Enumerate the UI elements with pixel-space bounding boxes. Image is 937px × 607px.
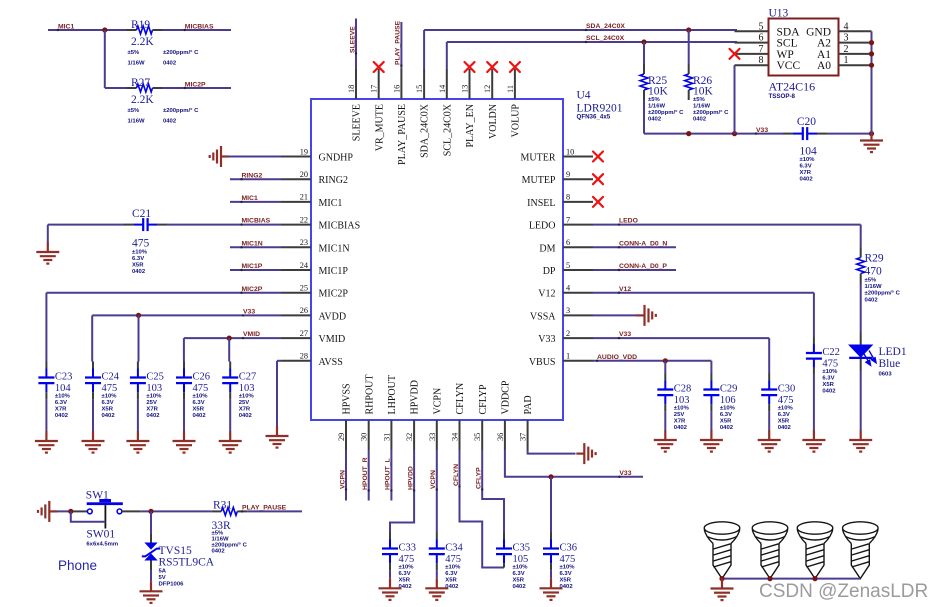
svg-text:±200ppm/° C: ±200ppm/° C — [163, 108, 199, 114]
svg-text:SDA_24C0X: SDA_24C0X — [420, 103, 431, 158]
wire net SDA_24C0X horizontal — [424, 29, 737, 31]
svg-text:C33: C33 — [399, 543, 417, 554]
svg-text:28: 28 — [300, 352, 308, 361]
svg-text:MIC1: MIC1 — [242, 195, 258, 202]
svg-text:27: 27 — [300, 329, 308, 338]
U4 pin 19 GNDHP stub — [281, 156, 311, 158]
no-connect X pin 11 — [510, 62, 520, 72]
wire C25 lead — [137, 399, 139, 431]
svg-text:RS5TL9CA: RS5TL9CA — [159, 556, 215, 568]
wire MIC2P down to C23 — [45, 293, 47, 362]
svg-text:R29: R29 — [865, 253, 884, 265]
svg-text:6: 6 — [566, 238, 570, 247]
node V33 label on rail — [755, 132, 757, 134]
svg-text:PLAY_PAUSE: PLAY_PAUSE — [397, 104, 408, 165]
capacitor C20 — [784, 133, 794, 135]
wire screw ground bus — [722, 578, 860, 580]
svg-text:6.3V: 6.3V — [55, 400, 67, 406]
no-connect X at U13 pin 7 WP — [730, 49, 740, 59]
wire net SCL_24C0X horizontal — [447, 41, 737, 43]
svg-text:A2: A2 — [817, 38, 831, 50]
svg-text:X7R: X7R — [800, 170, 812, 176]
wire net PLAY_PAUSE at pin 16 — [400, 22, 402, 69]
svg-text:X5R: X5R — [445, 578, 457, 584]
U13 pin 7 WP stub — [735, 53, 769, 55]
wire C36 to ground — [550, 570, 552, 578]
svg-text:PAD: PAD — [523, 395, 534, 414]
svg-text:X5R: X5R — [560, 578, 572, 584]
svg-text:8: 8 — [759, 55, 764, 66]
svg-text:GNDHP: GNDHP — [319, 153, 354, 164]
svg-text:R19: R19 — [131, 19, 150, 31]
svg-text:±10%: ±10% — [102, 394, 118, 400]
svg-text:HPVDD: HPVDD — [410, 380, 421, 414]
svg-text:CFLYN: CFLYN — [455, 383, 466, 415]
svg-text:VCPN: VCPN — [430, 470, 437, 489]
svg-text:HPOUT_R: HPOUT_R — [362, 457, 369, 490]
svg-text:C21: C21 — [132, 208, 151, 220]
wire net VCPN at pin 33 to C34 — [436, 450, 438, 533]
LED LED1 Blue — [860, 333, 862, 346]
svg-text:1/16W: 1/16W — [128, 118, 145, 124]
resistor R27 — [127, 87, 137, 89]
wire net LEDO — [593, 224, 861, 226]
U4 pin 3 VSSA stub — [563, 314, 593, 316]
wire AUDIO_VDD down to C28 — [664, 361, 666, 374]
ground below C29 — [700, 430, 723, 452]
junction R26 on V33 rail — [686, 131, 691, 136]
svg-text:VR_MUTE: VR_MUTE — [374, 104, 385, 151]
svg-text:AUDIO_VDD: AUDIO_VDD — [597, 354, 637, 361]
junction at TVS15 — [148, 509, 153, 514]
svg-text:U4: U4 — [577, 90, 591, 102]
svg-text:Blue: Blue — [879, 358, 901, 370]
svg-text:V33: V33 — [756, 127, 768, 134]
U4 pin 36 VDDCP stub — [504, 420, 506, 450]
svg-text:17: 17 — [370, 85, 379, 93]
svg-text:C30: C30 — [778, 384, 796, 395]
svg-text:8: 8 — [566, 193, 570, 202]
svg-text:±10%: ±10% — [146, 394, 162, 400]
screw MH2 — [752, 522, 788, 579]
IC U13 AT24C16 body — [769, 19, 839, 76]
U4 pin 32 HPVDD stub — [413, 420, 415, 450]
svg-text:C25: C25 — [146, 372, 164, 383]
junction V33 to C25 — [136, 313, 141, 318]
svg-text:MIC1: MIC1 — [319, 198, 343, 209]
resistor R29 470 — [860, 248, 862, 258]
wire AVSS down to ground — [277, 360, 281, 362]
svg-text:A0: A0 — [817, 60, 831, 72]
capacitor C25 — [137, 362, 139, 369]
wire SW1 to R31 — [140, 510, 211, 512]
svg-text:AT24C16: AT24C16 — [769, 80, 816, 94]
junction U13 pin 2 — [869, 51, 874, 56]
U4 pin 5 DP stub — [563, 269, 593, 271]
U4 pin 10 MUTER stub — [563, 156, 593, 158]
ground right of C20 — [860, 131, 883, 153]
wire net HPOUT_R at pin 30 — [368, 450, 370, 501]
svg-text:X5R: X5R — [513, 578, 525, 584]
svg-text:7: 7 — [759, 44, 764, 55]
wire VCC riser to U13 pin 8 — [734, 65, 736, 133]
svg-text:±5%: ±5% — [693, 97, 706, 103]
svg-text:LEDO: LEDO — [529, 221, 556, 232]
svg-text:0402: 0402 — [648, 116, 662, 122]
svg-text:C35: C35 — [513, 543, 531, 554]
U4 pin 34 CFLYN stub — [459, 420, 461, 450]
svg-text:VCPN: VCPN — [339, 470, 346, 489]
svg-text:6.3V: 6.3V — [445, 571, 457, 577]
wire net VMID row at pin 27 — [184, 337, 281, 339]
U4 pin 7 LEDO stub — [563, 224, 593, 226]
wire net MIC1 horizontal — [48, 29, 127, 31]
svg-text:SDA: SDA — [777, 26, 801, 38]
svg-text:0402: 0402 — [212, 549, 226, 555]
wire net AUDIO_VDD at pin 1 VBUS — [593, 360, 711, 362]
svg-text:C20: C20 — [797, 116, 816, 128]
svg-text:475: 475 — [822, 359, 838, 370]
wire R26 top — [688, 30, 690, 64]
U4 pin 1 VBUS stub — [563, 360, 593, 362]
wire LED1 to ground — [860, 371, 862, 430]
svg-text:X5R: X5R — [822, 382, 834, 388]
wire VMID down to C27 — [228, 338, 230, 361]
svg-text:7: 7 — [566, 215, 570, 224]
svg-text:V33: V33 — [619, 331, 631, 338]
svg-text:SW1: SW1 — [86, 489, 109, 501]
U4 pin 17 VR_MUTE stub — [378, 69, 380, 99]
svg-text:10K: 10K — [648, 86, 669, 98]
U4 pin 2 V33 stub — [563, 337, 593, 339]
U13 pin 3 A2 stub — [839, 42, 872, 44]
svg-text:20: 20 — [300, 170, 308, 179]
svg-text:34: 34 — [451, 432, 460, 441]
resistor R19 — [127, 29, 137, 31]
U4 pin 33 VCPN stub — [436, 420, 438, 450]
svg-text:C28: C28 — [674, 384, 692, 395]
resistor R26 10K — [688, 64, 690, 74]
svg-text:±10%: ±10% — [55, 394, 71, 400]
capacitor C35 — [503, 533, 505, 540]
svg-text:2.2K: 2.2K — [131, 94, 154, 106]
wire VMID down to C26 — [183, 338, 185, 361]
wire net V12 at pin 4 — [593, 292, 814, 294]
U4 pin 26 AVDD stub — [281, 314, 311, 316]
svg-text:C29: C29 — [720, 384, 738, 395]
ground below C30 — [758, 430, 781, 452]
capacitor C26 — [183, 362, 185, 369]
svg-text:VSSA: VSSA — [530, 311, 556, 322]
svg-text:X7R: X7R — [239, 407, 251, 413]
svg-text:TSSOP-8: TSSOP-8 — [769, 93, 796, 100]
svg-text:MICBIAS: MICBIAS — [242, 218, 271, 225]
svg-text:X5R: X5R — [720, 419, 732, 425]
svg-text:VBUS: VBUS — [529, 357, 556, 368]
svg-text:10: 10 — [566, 147, 574, 156]
svg-text:C26: C26 — [193, 372, 211, 383]
wire net V33 rail top-right — [644, 133, 784, 135]
svg-text:1/16W: 1/16W — [212, 536, 229, 542]
wire C22 to ground — [813, 375, 815, 430]
svg-text:0402: 0402 — [146, 413, 160, 419]
wire VSSA at pin 3 — [593, 314, 637, 316]
U4 pin 27 VMID stub — [281, 337, 311, 339]
svg-text:5V: 5V — [159, 575, 166, 581]
ground below C23 — [35, 431, 58, 453]
svg-text:C23: C23 — [55, 372, 73, 383]
ground below C34 — [425, 578, 448, 600]
svg-text:±200ppm/° C: ±200ppm/° C — [163, 50, 199, 56]
svg-text:QFN36_4x5: QFN36_4x5 — [577, 114, 611, 121]
wire C34 to ground — [436, 570, 438, 578]
svg-text:3: 3 — [566, 306, 570, 315]
svg-text:CFLYP: CFLYP — [476, 467, 483, 489]
wire R31 to PLAY_PAUSE — [247, 510, 302, 512]
wire net VCPN at pin 29 — [345, 450, 347, 501]
svg-text:V33: V33 — [538, 334, 555, 345]
svg-text:±10%: ±10% — [720, 406, 736, 412]
svg-text:VMID: VMID — [319, 334, 346, 345]
svg-text:0402: 0402 — [720, 425, 734, 431]
svg-text:4: 4 — [844, 21, 849, 32]
svg-text:29: 29 — [337, 433, 346, 441]
svg-text:HPVSS: HPVSS — [342, 383, 353, 414]
svg-text:CFLYP: CFLYP — [478, 384, 489, 415]
node MIC2P label — [184, 87, 186, 89]
svg-text:RING2: RING2 — [242, 172, 263, 179]
svg-text:RING2: RING2 — [319, 175, 348, 186]
svg-text:3: 3 — [844, 33, 849, 44]
U4 pin 31 LHPOUT stub — [390, 420, 392, 450]
svg-text:37: 37 — [519, 433, 528, 441]
no-connect X pin 10 MUTER — [593, 152, 603, 162]
no-connect X pin 9 MUTEP — [593, 174, 603, 184]
U13 pin 4 GND stub — [839, 30, 872, 32]
svg-text:6.3V: 6.3V — [102, 400, 114, 406]
wire net MICBIAS row — [48, 224, 125, 226]
svg-text:X5R: X5R — [102, 407, 114, 413]
ground left of SW1 — [38, 501, 57, 522]
svg-text:MIC1P: MIC1P — [319, 266, 349, 277]
svg-text:±5%: ±5% — [648, 97, 661, 103]
ground below C24 — [82, 431, 105, 453]
svg-text:16: 16 — [392, 85, 401, 93]
svg-text:VMID: VMID — [243, 331, 260, 338]
svg-text:±10%: ±10% — [513, 565, 529, 571]
svg-text:25V: 25V — [674, 412, 685, 418]
wire C29 to ground — [710, 411, 712, 430]
wire net CONN-A_D0_P at pin 5 DP — [593, 269, 676, 271]
svg-text:1/16W: 1/16W — [865, 284, 882, 290]
svg-text:SW01: SW01 — [86, 529, 115, 541]
wire GNDHP — [229, 156, 282, 158]
ground below C27 — [219, 431, 242, 453]
U4 pin 6 DM stub — [563, 246, 593, 248]
svg-text:MIC2P: MIC2P — [185, 81, 206, 88]
U4 pin 11 VOLUP stub — [514, 69, 516, 99]
svg-text:23: 23 — [300, 238, 308, 247]
svg-text:36: 36 — [496, 433, 505, 441]
wire R25 top — [643, 42, 645, 64]
U4 pin 22 MICBIAS stub — [281, 224, 311, 226]
svg-text:MIC2P: MIC2P — [242, 286, 263, 293]
svg-text:±10%: ±10% — [800, 157, 816, 163]
svg-text:1/16W: 1/16W — [693, 103, 710, 109]
svg-text:R27: R27 — [131, 77, 150, 89]
svg-text:1/16W: 1/16W — [128, 60, 145, 66]
svg-text:475: 475 — [193, 383, 209, 394]
svg-text:WP: WP — [777, 49, 794, 61]
wire net RING2 — [230, 178, 281, 180]
svg-text:VCPN: VCPN — [432, 388, 443, 415]
svg-text:0402: 0402 — [513, 584, 527, 590]
U4 pin 23 MIC1N stub — [281, 246, 311, 248]
U4 pin 14 SCL_24C0X stub — [446, 69, 448, 99]
svg-text:18: 18 — [347, 85, 356, 93]
svg-text:HPVDD: HPVDD — [407, 466, 414, 490]
svg-text:0402: 0402 — [693, 116, 707, 122]
wire TVS riser — [150, 511, 152, 534]
svg-text:475: 475 — [399, 554, 415, 565]
wire U13 right pins to ground rail — [871, 31, 873, 133]
svg-text:0402: 0402 — [55, 413, 69, 419]
wire net MIC1 stub at pin 21 — [230, 201, 281, 203]
U13 pin 1 A0 stub — [839, 64, 872, 66]
svg-text:104: 104 — [55, 383, 72, 394]
svg-text:MIC1: MIC1 — [58, 23, 74, 30]
svg-text:11: 11 — [506, 85, 515, 93]
svg-text:1: 1 — [566, 352, 570, 361]
U4 pin 28 AVSS stub — [281, 360, 311, 362]
U4 pin 37 PAD stub — [527, 420, 529, 450]
junction on MIC1 net — [102, 27, 107, 32]
svg-text:CFLYN: CFLYN — [453, 464, 460, 486]
U4 pin 21 MIC1 stub — [281, 201, 311, 203]
svg-text:AVSS: AVSS — [319, 357, 343, 368]
svg-text:6.3V: 6.3V — [560, 571, 572, 577]
svg-text:DFP1006: DFP1006 — [159, 581, 185, 587]
svg-text:AVDD: AVDD — [319, 311, 347, 322]
wire SDA_24C0X vertical from pin 15 — [423, 30, 425, 69]
svg-text:PLAY_PAUSE: PLAY_PAUSE — [242, 504, 287, 511]
svg-text:V12: V12 — [619, 286, 631, 293]
junction V33 rail right end — [869, 131, 874, 136]
node MIC1 label — [57, 29, 59, 31]
ground below C25 — [126, 431, 149, 453]
svg-text:±200ppm/° C: ±200ppm/° C — [648, 110, 684, 116]
svg-text:±10%: ±10% — [445, 565, 461, 571]
ground below C26 — [173, 431, 196, 453]
svg-text:±200ppm/° C: ±200ppm/° C — [693, 110, 729, 116]
capacitor C36 — [550, 533, 552, 540]
svg-text:C27: C27 — [239, 372, 257, 383]
junction AUDIO_VDD at C28 — [663, 358, 668, 363]
ground below screws — [711, 579, 734, 601]
U4 pin 18 SLEEVE stub — [355, 69, 357, 99]
capacitor C21 — [124, 224, 133, 226]
svg-text:22: 22 — [300, 215, 308, 224]
svg-text:106: 106 — [720, 395, 736, 406]
wire SW1 lower bypass — [71, 511, 106, 521]
wire SCL_24C0X vertical from pin 14 — [446, 42, 448, 69]
svg-text:2: 2 — [566, 329, 570, 338]
svg-text:VCC: VCC — [777, 60, 801, 72]
junction screw 1 — [719, 576, 724, 581]
svg-text:CONN-A_D0_N: CONN-A_D0_N — [619, 240, 667, 247]
wire C33 to ground — [389, 570, 391, 578]
svg-text:6.3V: 6.3V — [800, 164, 812, 170]
ground at VSSA — [637, 305, 656, 326]
wire ground to SW1 — [57, 510, 74, 512]
ground below TVS15 — [140, 581, 163, 603]
svg-text:12: 12 — [483, 85, 492, 93]
svg-text:13: 13 — [461, 85, 470, 93]
svg-text:±5%: ±5% — [128, 108, 141, 114]
wire net V33 at pin 36 — [505, 450, 643, 477]
svg-text:RHPOUT: RHPOUT — [364, 374, 375, 414]
U4 pin 16 PLAY_PAUSE stub — [400, 69, 402, 99]
svg-text:21: 21 — [300, 193, 308, 202]
capacitor C33 — [389, 533, 391, 540]
U13 pin 2 A1 stub — [839, 53, 872, 55]
svg-text:VOLUP: VOLUP — [511, 104, 522, 138]
junction screw 3 — [812, 576, 817, 581]
svg-text:V33: V33 — [619, 470, 631, 477]
svg-text:19: 19 — [300, 147, 308, 156]
svg-text:MUTEP: MUTEP — [522, 175, 556, 186]
svg-text:±10%: ±10% — [239, 394, 255, 400]
svg-text:0402: 0402 — [674, 425, 688, 431]
svg-text:V12: V12 — [538, 289, 555, 300]
capacitor C30 — [768, 374, 770, 381]
resistor R25 10K — [643, 64, 645, 74]
svg-text:Phone: Phone — [58, 558, 97, 573]
U4 pin 4 V12 stub — [563, 292, 593, 294]
svg-text:30: 30 — [360, 433, 369, 441]
svg-text:470: 470 — [865, 266, 883, 278]
svg-text:5: 5 — [759, 21, 764, 32]
svg-text:MIC1N: MIC1N — [242, 240, 263, 247]
svg-text:32: 32 — [405, 433, 414, 441]
wire V33 down to C24 — [91, 315, 93, 361]
svg-text:C22: C22 — [822, 347, 840, 358]
wire net V33 at pin 2 — [593, 337, 769, 339]
svg-text:6: 6 — [759, 33, 764, 44]
svg-text:31: 31 — [382, 433, 391, 441]
wire V33 down to C36 — [550, 477, 552, 533]
switch SW1 tactile — [74, 510, 88, 512]
wire net HPOUT_L at pin 31 — [390, 450, 392, 501]
svg-text:LEDO: LEDO — [619, 218, 638, 225]
ground at pin 19 GNDHP — [210, 146, 229, 167]
svg-text:C24: C24 — [102, 372, 120, 383]
svg-text:6.3V: 6.3V — [822, 376, 834, 382]
wire net CFLYN at pin 34 to C35 bottom — [460, 450, 505, 568]
svg-text:9: 9 — [566, 170, 570, 179]
svg-text:10K: 10K — [693, 86, 714, 98]
svg-text:MIC1P: MIC1P — [242, 263, 263, 270]
wire R29 to LED1 — [860, 284, 862, 333]
svg-text:SCL_24C0X: SCL_24C0X — [586, 35, 625, 42]
svg-text:C34: C34 — [445, 543, 463, 554]
node MICBIAS label — [184, 29, 186, 31]
svg-text:0402: 0402 — [163, 60, 177, 66]
capacitor C24 — [92, 362, 94, 369]
U4 pin 9 MUTEP stub — [563, 178, 593, 180]
wire C28 to ground — [664, 411, 666, 430]
svg-text:MIC2P: MIC2P — [319, 289, 349, 300]
